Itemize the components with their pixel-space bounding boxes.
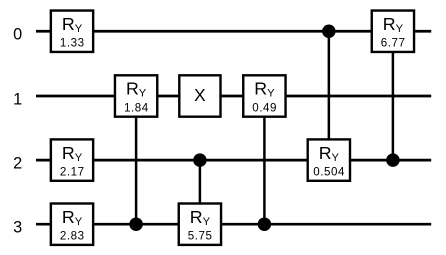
control dot on q3 col2: [129, 217, 143, 231]
control line col6: RY(6.77) on q0 to control on q2: [392, 31, 395, 160]
svg-text:5.75: 5.75: [188, 230, 213, 243]
control dot on q0 col5: [322, 25, 336, 39]
svg-text:0.49: 0.49: [252, 101, 277, 114]
gate RY(1.33) on q0: [51, 11, 93, 52]
svg-text:0.504: 0.504: [313, 166, 345, 179]
svg-text:1.33: 1.33: [60, 37, 85, 50]
control dot on q3 col4: [258, 217, 272, 231]
svg-text:1.84: 1.84: [124, 101, 149, 114]
gate RY(0.504) on q2 controlled by q0: [308, 139, 350, 180]
control line col4: RY(0.49) on q1 to control on q3: [263, 96, 266, 224]
svg-text:2.17: 2.17: [60, 166, 85, 179]
qubit label 1: [13, 90, 22, 108]
control dot on q2 col6: [386, 153, 400, 167]
qubit label 0: [13, 26, 22, 44]
wire q3: [36, 223, 431, 226]
svg-text:0: 0: [13, 26, 22, 44]
control dot on q2 col3: [193, 153, 207, 167]
wire q2: [36, 159, 431, 162]
svg-text:X: X: [194, 85, 206, 105]
gate RY(1.84) on q1 controlled by q3: [115, 75, 157, 116]
control line col2: RY(1.84) on q1 to control on q3: [135, 96, 138, 224]
gate RY(2.83) on q3: [51, 204, 93, 245]
wire q0: [36, 30, 431, 33]
svg-text:3: 3: [13, 219, 22, 237]
qubit label 3: [13, 219, 22, 237]
gate RY(2.17) on q2: [51, 139, 93, 180]
svg-text:2: 2: [13, 155, 22, 173]
gate RY(6.77) on q0 controlled by q2: [372, 11, 414, 52]
svg-text:6.77: 6.77: [381, 37, 406, 50]
control line col5: control on q0 to RY(0.504) on q2: [328, 31, 331, 160]
gate X on q1: [179, 75, 220, 116]
svg-text:1: 1: [13, 90, 22, 108]
wire q1: [36, 95, 431, 98]
gate RY(0.49) on q1 controlled by q3: [243, 75, 285, 116]
control line col3: control on q2 to RY(5.75) on q3: [199, 160, 202, 224]
svg-text:2.83: 2.83: [60, 230, 85, 243]
gate RY(5.75) on q3 controlled by q2: [179, 204, 221, 245]
qubit label 2: [13, 155, 22, 173]
